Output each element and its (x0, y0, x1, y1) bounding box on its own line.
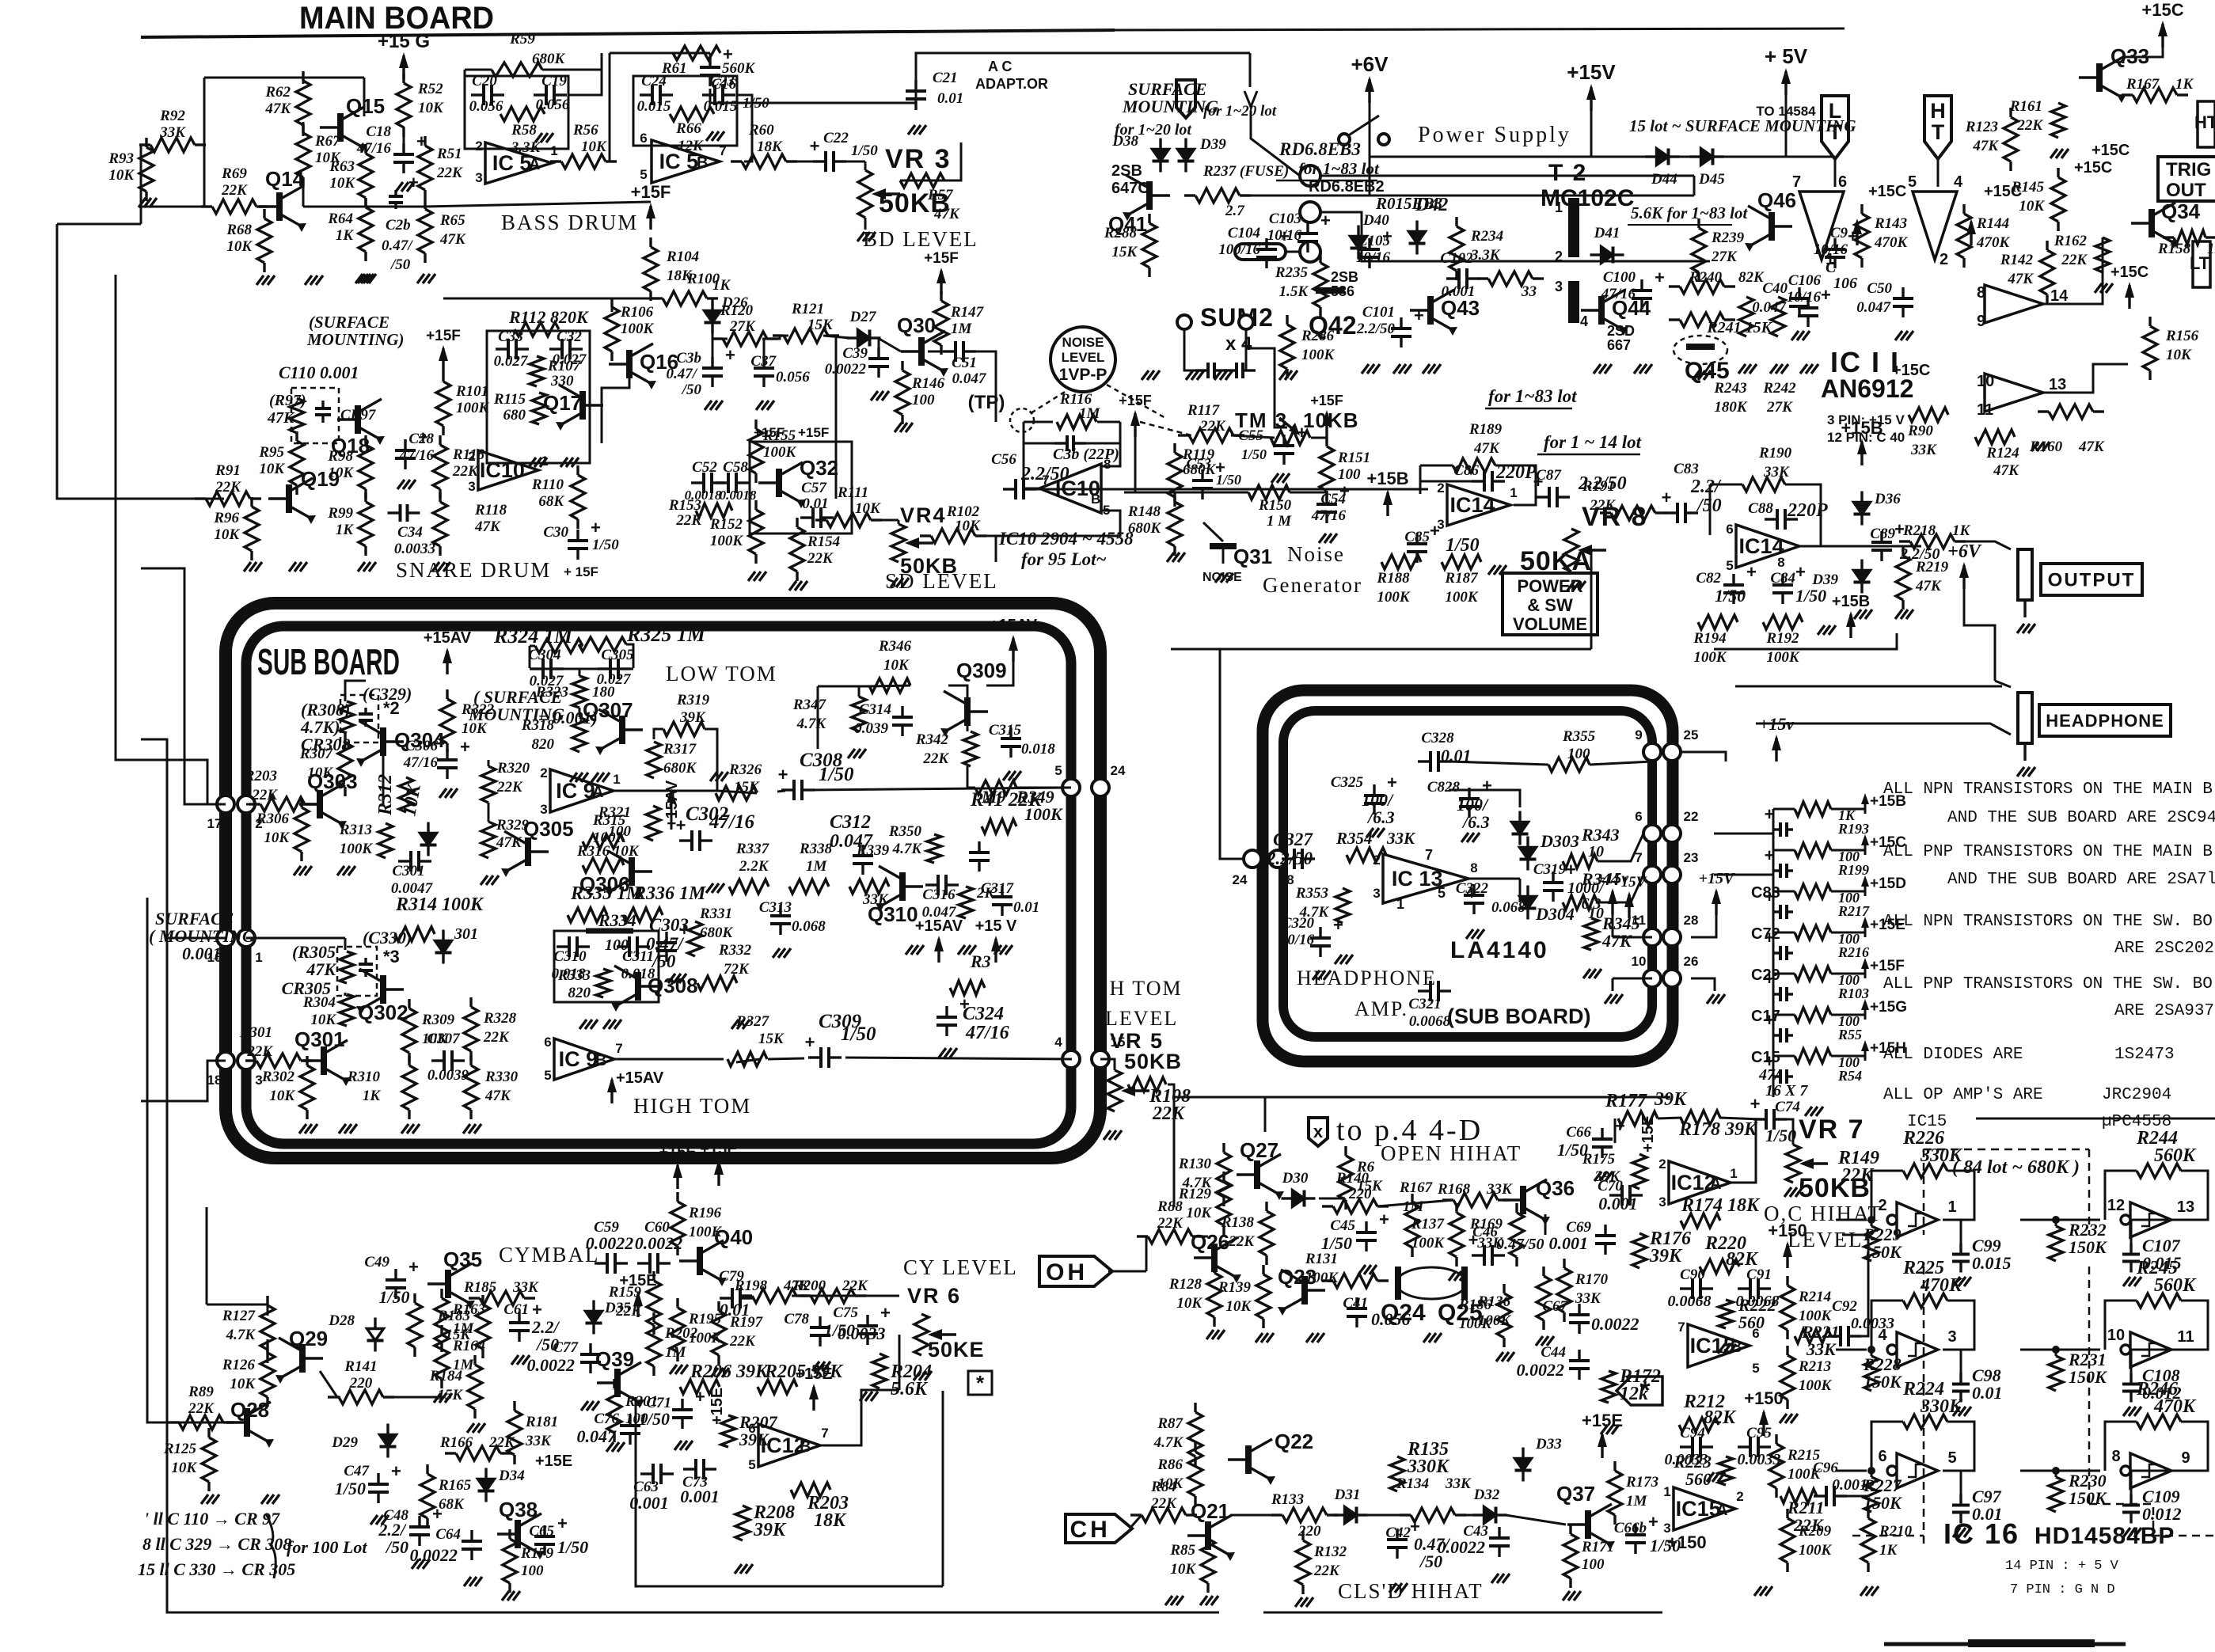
wire (1835, 1495, 1868, 1498)
capacitor C73 (683, 1468, 696, 1470)
svg-text:106: 106 (1833, 275, 1857, 292)
battery symbol (1235, 244, 1286, 260)
svg-text:C18: C18 (366, 123, 391, 140)
capacitor C50 (1902, 287, 1904, 298)
label HT tag right (2198, 101, 2215, 147)
svg-text:+15E: +15E (619, 1272, 656, 1289)
svg-text:R350: R350 (888, 823, 922, 840)
svg-text:1/50: 1/50 (335, 1479, 366, 1498)
node headphone pin 10 (1643, 970, 1661, 987)
diode D28 (374, 1318, 376, 1329)
svg-text:6: 6 (1752, 1326, 1759, 1341)
svg-text:33K: 33K (1445, 1475, 1472, 1492)
wire (1230, 1514, 1282, 1517)
wire pin16 into c330 (246, 937, 345, 940)
svg-text:150K: 150K (1864, 1372, 1902, 1392)
box low tom feedback (530, 667, 633, 669)
svg-text:ADAPT.OR: ADAPT.OR (975, 76, 1048, 92)
resistor R336 (623, 908, 663, 922)
resistor R237 (1184, 194, 1195, 196)
power +15E (676, 1165, 678, 1189)
wire (383, 1396, 443, 1399)
ground (1784, 1187, 1791, 1197)
wire (712, 339, 714, 358)
diode D45 (1690, 155, 1701, 158)
svg-text:586: 586 (1331, 283, 1354, 299)
ground (1214, 370, 1221, 380)
svg-text:+: + (591, 518, 601, 537)
ground (1104, 1130, 1111, 1140)
svg-text:B: B (697, 154, 708, 172)
transistor Q35 (445, 1270, 451, 1298)
svg-text:D29: D29 (331, 1434, 358, 1451)
ground (1953, 1528, 1960, 1537)
capacitor C329 dashed box (340, 695, 378, 742)
resistor R97 (290, 398, 304, 433)
ground (256, 275, 264, 285)
resistor R126 (266, 1343, 268, 1353)
svg-text:R153: R153 (668, 497, 701, 514)
wire (542, 69, 602, 71)
diode D27 (847, 336, 858, 339)
transformer T2 winding2 (1568, 281, 1579, 323)
capacitor ladder 1 (1774, 869, 1780, 872)
svg-text:x 4: x 4 (1225, 333, 1252, 355)
svg-text:0.039: 0.039 (854, 720, 888, 737)
wire ic9b out (614, 1058, 724, 1061)
ground (603, 1020, 610, 1029)
wire (1871, 1171, 1903, 1220)
svg-text:10K: 10K (581, 139, 607, 155)
resistor R168 (1442, 1198, 1453, 1201)
svg-text:R151: R151 (1337, 450, 1370, 466)
svg-text:C46: C46 (1472, 1224, 1498, 1240)
potentiometer VR6 (914, 1314, 929, 1355)
svg-text:R355: R355 (1562, 728, 1596, 745)
svg-text:47K: 47K (1915, 578, 1942, 594)
node gate 10 (2052, 1346, 2060, 1354)
svg-text:Q309: Q309 (956, 659, 1007, 682)
svg-text:C321: C321 (1408, 996, 1441, 1012)
resistor R218 (1899, 540, 1910, 542)
svg-text:2: 2 (1555, 249, 1563, 264)
wire oh input (1108, 1270, 1146, 1273)
resistor R325 (579, 637, 626, 651)
resistor R98 (364, 435, 367, 445)
svg-text:0.001: 0.001 (1598, 1194, 1638, 1213)
svg-text:C50: C50 (1867, 280, 1892, 297)
ground (1449, 1271, 1456, 1281)
diode D37 (1860, 560, 1863, 571)
svg-text:1: 1 (1663, 1484, 1670, 1499)
wire (1871, 1301, 1903, 1350)
resistor R140 (1322, 1205, 1333, 1207)
resistor R323 (572, 676, 587, 708)
wire (2055, 1350, 2057, 1356)
svg-text:560K: 560K (2154, 1275, 2197, 1296)
svg-text:1/50: 1/50 (851, 142, 878, 159)
resistor R192 (1763, 615, 1803, 629)
wire (1831, 1014, 1865, 1016)
wire (1961, 1350, 1974, 1377)
ground (481, 875, 488, 885)
svg-text:15K: 15K (437, 1387, 463, 1403)
svg-text:C86: C86 (1453, 462, 1479, 479)
ground (1953, 1277, 1960, 1286)
svg-text:C45: C45 (1330, 1217, 1355, 1234)
capacitor C314 (901, 706, 903, 717)
resistor R350 (927, 834, 941, 863)
capacitor C305 (598, 667, 610, 670)
svg-text:15 ll C 330 → CR 305: 15 ll C 330 → CR 305 (138, 1559, 295, 1579)
svg-text:R242: R242 (1762, 380, 1796, 397)
capacitor C304 (530, 667, 543, 670)
resistor R343 (1563, 854, 1598, 868)
svg-text:Q14: Q14 (265, 167, 305, 191)
svg-text:R304: R304 (302, 994, 336, 1011)
svg-text:ALL PNP TRANSISTORS ON THE SW.: ALL PNP TRANSISTORS ON THE SW. BO (1883, 975, 2213, 993)
resistor R348 (950, 981, 985, 995)
svg-text:22K: 22K (729, 1333, 756, 1350)
svg-text:47K: 47K (1972, 138, 1999, 154)
svg-text:for 95 Lot~: for 95 Lot~ (1021, 549, 1107, 569)
svg-text:+: + (1615, 1116, 1625, 1136)
ground (1895, 331, 1902, 340)
svg-text:150K: 150K (2069, 1237, 2107, 1257)
svg-text:C40: C40 (1762, 280, 1788, 297)
wire to pin 4 (845, 1058, 1072, 1059)
op-amp IC10B (1039, 464, 1101, 513)
resistor R61 (673, 46, 720, 60)
svg-text:C78: C78 (784, 1311, 809, 1327)
svg-text:13: 13 (2049, 376, 2066, 393)
potentiometer TM3 (1271, 431, 1310, 445)
power arrow ic11b (1970, 222, 1972, 245)
resistor R241 (1669, 318, 1680, 321)
svg-text:47/16: 47/16 (1601, 286, 1636, 302)
svg-text:7: 7 (1425, 847, 1433, 863)
svg-text:100K: 100K (340, 841, 374, 857)
resistor R212 (1679, 1418, 1719, 1432)
wire (1231, 435, 1275, 438)
transistor Q25 (1461, 1267, 1468, 1300)
wire snare top rail (443, 298, 663, 300)
wire top feedback rail (610, 52, 710, 55)
svg-text:C29: C29 (1751, 967, 1780, 984)
resistor R244 (2137, 1164, 2181, 1178)
resistor R153 (696, 503, 732, 518)
svg-text:Q38: Q38 (499, 1498, 538, 1521)
capacitor (679, 839, 692, 841)
wire (2131, 1471, 2208, 1498)
resistor R173 (1613, 1461, 1616, 1471)
ground (711, 1368, 718, 1377)
wire (1590, 111, 1593, 157)
svg-text:1: 1 (1510, 485, 1517, 500)
svg-text:10/16: 10/16 (1280, 932, 1315, 948)
wire (2105, 1171, 2137, 1220)
ground (1393, 364, 1400, 374)
svg-text:R136: R136 (1477, 1293, 1511, 1310)
svg-text:12k: 12k (1620, 1384, 1648, 1404)
resistor R183 (481, 1295, 484, 1305)
svg-text:6: 6 (544, 1035, 551, 1050)
resistor R93 (145, 138, 147, 147)
wire (1613, 936, 1652, 939)
connector flag mix * (1617, 1377, 1662, 1405)
resistor R225 (1903, 1293, 1947, 1308)
ground (581, 1401, 588, 1411)
svg-text:C64: C64 (435, 1526, 461, 1543)
svg-text:Q35: Q35 (443, 1248, 482, 1271)
ground (579, 1020, 587, 1029)
svg-text:22K: 22K (675, 512, 702, 529)
ground (289, 562, 296, 572)
svg-text:C305: C305 (601, 647, 634, 663)
svg-text:10: 10 (2107, 1327, 2125, 1344)
svg-text:R150: R150 (1258, 497, 1292, 514)
node sub-board right pin 5 (1062, 779, 1080, 796)
wire (1319, 1198, 1343, 1200)
wire (2176, 1171, 2208, 1220)
svg-text:B: B (1731, 1339, 1742, 1356)
capacitor C77 (589, 1343, 591, 1354)
wire c110 top (345, 681, 366, 697)
svg-text:SNARE DRUM: SNARE DRUM (396, 558, 551, 582)
svg-text:R301: R301 (239, 1024, 272, 1041)
wire bus into sub board (141, 568, 207, 804)
box IC5A feedback (465, 76, 568, 149)
svg-text:+: + (1795, 562, 1806, 582)
svg-text:R63: R63 (329, 158, 355, 175)
svg-text:C316: C316 (922, 887, 956, 903)
wire (1173, 1097, 1176, 1207)
ground (1601, 1425, 1608, 1434)
power +15E (717, 1162, 720, 1186)
headphone amp outer border (1263, 690, 1673, 1061)
wire supply rail (1240, 195, 1694, 197)
wire (948, 685, 967, 697)
ground (789, 581, 796, 591)
svg-text:Q305: Q305 (523, 817, 574, 841)
resistor R226 (1903, 1164, 1947, 1178)
capacitor C319 (1552, 872, 1554, 883)
svg-text:0.068: 0.068 (792, 918, 826, 935)
label LT tag right (2193, 241, 2210, 287)
svg-text:+: + (1648, 1512, 1658, 1532)
svg-text:0.01: 0.01 (1013, 899, 1039, 916)
svg-text:0.0039: 0.0039 (427, 1067, 469, 1084)
wire (928, 351, 948, 353)
resistor R197 (717, 1301, 720, 1311)
diode D42 zener (1415, 221, 1418, 232)
svg-text:+15 G: +15 G (378, 31, 430, 52)
svg-text:0.012: 0.012 (2142, 1504, 2182, 1524)
resistor R202 (652, 1312, 655, 1322)
wire (1590, 761, 1652, 765)
node headphone pin 6 (1643, 825, 1661, 842)
svg-text:0.0022: 0.0022 (1591, 1314, 1639, 1334)
svg-text:Q34: Q34 (2161, 199, 2201, 223)
svg-text:+15AV: +15AV (990, 617, 1038, 634)
wire (2131, 1220, 2208, 1247)
svg-text:+: + (1379, 1210, 1389, 1229)
wire (256, 206, 269, 208)
resistor R52 (402, 74, 405, 83)
svg-text:22K: 22K (221, 182, 248, 199)
node headphone pin 8 (1269, 850, 1286, 868)
svg-text:10KB: 10KB (1303, 408, 1358, 432)
svg-text:R200: R200 (792, 1278, 826, 1294)
svg-text:7: 7 (1792, 173, 1801, 191)
wire (579, 708, 581, 717)
svg-text:R189: R189 (1468, 421, 1503, 438)
transistor Q43 (1427, 296, 1434, 325)
svg-text:2: 2 (1940, 251, 1948, 268)
ground (463, 1124, 470, 1134)
svg-text:+: + (408, 173, 419, 192)
wire (1311, 438, 1327, 443)
svg-text:R141: R141 (344, 1358, 377, 1375)
capacitor C94 (1680, 1445, 1693, 1448)
resistor R206 (680, 1380, 720, 1394)
wire (1369, 103, 1371, 196)
wire (568, 53, 602, 95)
ground (1295, 1597, 1302, 1607)
svg-text:5: 5 (1726, 558, 1733, 573)
wire top right rail (916, 53, 1250, 78)
capacitor C85 (1415, 533, 1418, 544)
svg-text:R168: R168 (1437, 1181, 1471, 1198)
wire (1519, 879, 1522, 902)
resistor R145 (2057, 168, 2059, 177)
svg-text:330K: 330K (1920, 1396, 1963, 1417)
capacitor C43 (1498, 1527, 1500, 1538)
svg-text:R118: R118 (474, 502, 507, 518)
svg-text:8: 8 (1286, 872, 1294, 887)
wire (488, 760, 490, 766)
ground (908, 125, 915, 135)
svg-text:R133: R133 (1271, 1491, 1304, 1508)
svg-text:5: 5 (1054, 763, 1062, 778)
resistor R58 (500, 107, 545, 121)
resistor R305 (340, 951, 354, 983)
svg-text:+: + (1320, 211, 1331, 230)
resistor R234 (1455, 217, 1457, 226)
transistor Q22 (1245, 1445, 1252, 1474)
svg-text:33: 33 (1521, 283, 1537, 300)
svg-text:1/50: 1/50 (824, 1320, 855, 1340)
wire (1831, 973, 1865, 975)
label box POWER & SW VOLUME (1503, 573, 1598, 635)
potentiometer VR7 (1786, 1145, 1800, 1183)
capacitor C51 (943, 350, 956, 352)
svg-text:R138: R138 (1221, 1214, 1255, 1231)
resistor R95 (295, 431, 298, 441)
svg-text:D32: D32 (1473, 1487, 1500, 1503)
label box HEADPHONE (2039, 704, 2171, 736)
wire (817, 686, 819, 749)
svg-text:1K: 1K (336, 522, 355, 538)
headphone amp inner border (1283, 711, 1652, 1037)
svg-text:10: 10 (1632, 954, 1647, 969)
svg-text:R152: R152 (709, 516, 743, 533)
wire headphone bus2 (1756, 723, 2011, 735)
svg-text:100: 100 (1582, 1556, 1605, 1573)
power +15F (649, 206, 652, 230)
svg-text:+: + (1482, 776, 1492, 796)
svg-text:R106: R106 (620, 304, 654, 321)
svg-text:LEVEL: LEVEL (1105, 1007, 1178, 1030)
wire (654, 729, 663, 739)
capacitor (398, 860, 411, 862)
svg-text:3: 3 (1658, 1194, 1666, 1210)
op-amp IC11c (1985, 285, 2043, 323)
capacitor (781, 788, 794, 791)
ground (668, 974, 675, 983)
svg-text:R139: R139 (1218, 1279, 1252, 1296)
capacitor C306 (446, 749, 448, 760)
ground (1271, 473, 1278, 483)
wire (344, 681, 347, 701)
svg-text:Q29: Q29 (289, 1327, 328, 1350)
svg-text:R173: R173 (1625, 1474, 1658, 1491)
svg-text:R188: R188 (1376, 570, 1410, 587)
transistor Q29 (299, 1344, 306, 1373)
ground (1279, 370, 1286, 380)
node sub-board left pin 16 (217, 929, 234, 947)
wire (898, 520, 900, 524)
node sub-board right pin 24 (1092, 779, 1109, 796)
svg-text:BASS DRUM: BASS DRUM (501, 211, 638, 234)
svg-text:C34: C34 (397, 524, 423, 541)
svg-text:+15E: +15E (535, 1453, 572, 1470)
svg-text:R92: R92 (159, 108, 185, 124)
svg-text:100K: 100K (1478, 1312, 1512, 1329)
svg-text:Q40: Q40 (714, 1225, 753, 1249)
wire (1140, 422, 1191, 435)
capacitor C330 (364, 958, 367, 964)
svg-text:*: * (976, 1371, 985, 1395)
svg-text:+15E: +15E (709, 1388, 726, 1425)
wire (607, 53, 610, 161)
svg-text:R60: R60 (748, 122, 774, 139)
node headphone pin 7 (1643, 866, 1661, 883)
node sub-board right pin 4 (1062, 1050, 1080, 1068)
resistor R203 (791, 1483, 830, 1497)
svg-text:C91: C91 (1746, 1267, 1772, 1283)
power +15AV (937, 939, 940, 963)
node headphone pin 28 (1663, 929, 1681, 946)
svg-text:10K: 10K (214, 526, 240, 543)
ground (958, 945, 965, 955)
svg-text:100: 100 (912, 392, 935, 408)
svg-text:*2: *2 (383, 698, 400, 718)
svg-text:C310: C310 (553, 948, 587, 965)
wire (2105, 1422, 2137, 1471)
wire (1836, 1219, 1867, 1221)
op-amp IC9A (550, 769, 614, 812)
resistor R167 (2122, 93, 2133, 96)
svg-text:R65: R65 (439, 212, 465, 229)
svg-text:667: 667 (1607, 337, 1631, 353)
svg-text:R331: R331 (699, 906, 732, 922)
svg-text:1/50: 1/50 (592, 537, 619, 553)
svg-text:16 X 7: 16 X 7 (1765, 1082, 1808, 1099)
box Q32 (750, 442, 852, 534)
ground (1496, 1352, 1503, 1361)
op-amp IC14B (1736, 525, 1799, 568)
